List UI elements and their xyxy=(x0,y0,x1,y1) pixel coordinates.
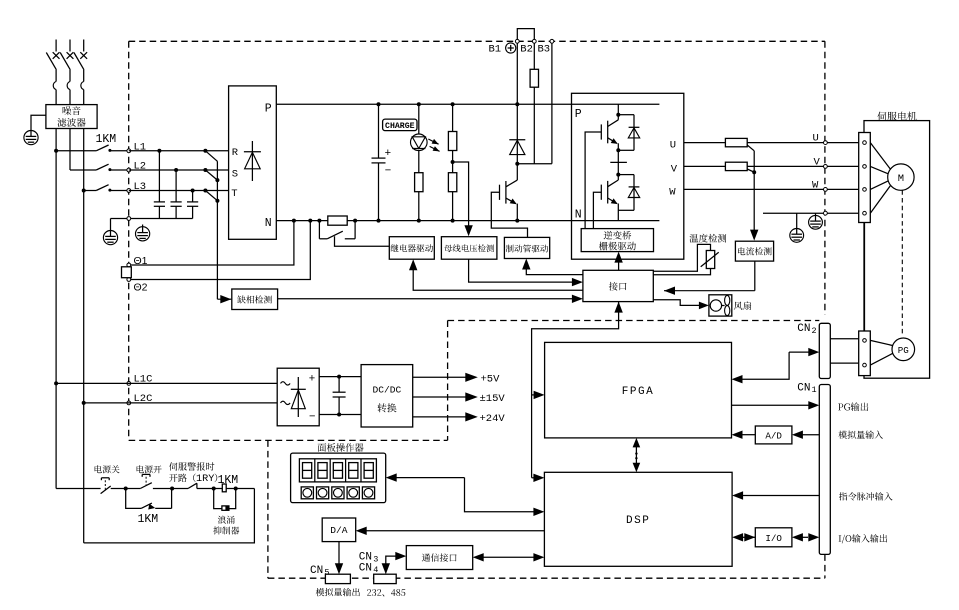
label I/O输入输出 xyxy=(839,534,888,543)
capacitor aux filter xyxy=(337,375,341,379)
wire phase-loss sense (R) xyxy=(205,151,217,162)
svg-text:P: P xyxy=(265,103,272,116)
svg-text:2: 2 xyxy=(812,326,817,336)
label 风扇 xyxy=(734,301,751,310)
contactor 1KM contact (L2 row) xyxy=(70,169,96,171)
svg-text:U: U xyxy=(813,133,819,145)
svg-text:3: 3 xyxy=(373,554,378,564)
svg-text:W: W xyxy=(669,187,676,199)
wire control return loop xyxy=(84,489,255,543)
node N rail junction xyxy=(515,219,519,223)
connector CN1 xyxy=(819,385,830,555)
wire L2C row xyxy=(82,401,86,405)
I/O block xyxy=(755,528,792,547)
DC/DC converter block xyxy=(361,365,413,427)
wire interface to relay drive xyxy=(413,266,583,290)
wire B1 to P rail xyxy=(516,43,518,104)
svg-text:A/D: A/D xyxy=(765,430,782,441)
wire interface to gate drive xyxy=(618,258,620,270)
relay contact 1RY xyxy=(172,488,188,490)
svg-text:P: P xyxy=(575,108,582,121)
servo motor enclosure box xyxy=(864,121,930,379)
wire motor connector to encoder connector xyxy=(864,223,866,332)
brake drive block 制动管驱动 xyxy=(504,237,549,258)
label 模拟量输出 xyxy=(316,588,360,596)
node phase tap (L1) xyxy=(203,149,207,153)
label PG输出 xyxy=(838,402,868,411)
wire A/D to FPGA xyxy=(742,434,755,436)
wire sense to current detect xyxy=(753,151,755,230)
motor shaft coupling (dashed) xyxy=(901,190,903,336)
wire P rail (DC bus +) xyxy=(276,103,659,105)
wire B3 lead xyxy=(551,43,553,164)
node phase tap (L3) xyxy=(203,189,207,193)
wire ±15V output xyxy=(413,396,466,398)
node phase tap (L2) xyxy=(203,168,207,172)
svg-text:1: 1 xyxy=(812,385,817,395)
connector CN2 xyxy=(819,323,830,378)
svg-text:1KM: 1KM xyxy=(138,513,159,526)
svg-text:CHARGE: CHARGE xyxy=(385,122,415,131)
wire CN2 to encoder connector b xyxy=(830,362,858,364)
earth ground symbol (motor PE) xyxy=(762,212,764,214)
coil contactor 1KM xyxy=(214,488,255,490)
bus voltage detect block 母线电压检测 xyxy=(441,237,497,260)
wire motor PE line xyxy=(763,212,859,214)
wire B2 lead xyxy=(533,43,535,69)
connector CN5 xyxy=(325,574,350,583)
svg-text:1KM: 1KM xyxy=(218,474,239,487)
circuit breaker pole 3 xyxy=(83,40,85,52)
terminal U (border) xyxy=(824,141,828,145)
wire L2 row to rectifier xyxy=(129,169,229,171)
wire I/O-CN1 (bidirectional) xyxy=(802,536,808,538)
resistor inrush-limit (on N rail) xyxy=(328,216,347,225)
terminal L3 xyxy=(127,189,131,193)
servo drive unit dashed border (right upper) xyxy=(824,41,826,314)
wire FPGA-DSP bus (bidirectional) xyxy=(635,442,637,469)
wire PG signal b xyxy=(870,353,893,365)
wire U phase output xyxy=(684,142,859,144)
wire interface to brake drive xyxy=(526,265,583,275)
node N rail junction xyxy=(377,219,381,223)
label CHARGE xyxy=(383,119,417,131)
node N rail junction xyxy=(353,219,357,223)
control board dashed border (top) xyxy=(448,320,820,322)
transistor inverter IGBT lower xyxy=(616,173,620,177)
node P rail junction xyxy=(451,102,455,106)
auxiliary rectifier block xyxy=(277,368,319,426)
comm interface block 通信接口 xyxy=(406,546,472,570)
gate drive block 逆变桥栅极驱动 xyxy=(581,229,653,252)
control board dashed border (left) xyxy=(267,440,269,578)
resistor regenerative (internal) xyxy=(530,69,538,87)
wire CN1 to A/D (analog input) xyxy=(802,434,819,436)
diode (aux rectifier symbol) xyxy=(297,377,299,417)
DSP block xyxy=(544,472,732,566)
svg-text:±15V: ±15V xyxy=(480,393,506,405)
label 浪涌抑制器 xyxy=(218,516,235,524)
wire bus voltage detect to interface xyxy=(469,259,573,282)
wire V to motor xyxy=(870,166,888,173)
wire phase B vertical xyxy=(69,129,71,171)
svg-text:CN: CN xyxy=(797,382,810,394)
svg-text:T: T xyxy=(231,188,237,200)
node control junction a xyxy=(124,487,128,491)
wire U to motor xyxy=(870,143,890,169)
wire N rail inside inverter xyxy=(572,220,660,222)
wire N rail (DC bus -) right segment xyxy=(347,220,659,222)
transistor brake IGBT xyxy=(505,181,507,204)
label 面板操作器 xyxy=(318,443,364,452)
earth ground symbol (caps) xyxy=(103,231,117,245)
encoder PG circle xyxy=(892,338,915,361)
interface block 接口 xyxy=(583,270,653,301)
svg-text:FPGA: FPGA xyxy=(622,386,654,398)
wire divider tap to bus-voltage detect xyxy=(453,162,469,226)
svg-text:L1: L1 xyxy=(134,141,147,153)
capacitor line-filter xyxy=(157,149,161,153)
diode (rectifier symbol) xyxy=(251,141,253,181)
svg-text:DC/DC: DC/DC xyxy=(373,385,402,396)
svg-text:Θ2: Θ2 xyxy=(134,282,148,294)
svg-text:+: + xyxy=(309,372,315,384)
wire inverter gate upper to gate drive xyxy=(585,132,601,229)
wire FPGA to CN1 (PG output) xyxy=(732,404,810,406)
node N rail junction xyxy=(417,219,421,223)
wire sense line down to phase-loss detector xyxy=(216,161,218,299)
wire CN2 to FPGA (encoder feedback) xyxy=(789,351,809,353)
terminal PE (border) xyxy=(824,211,828,215)
panel display digits xyxy=(299,459,376,482)
svg-text:+: + xyxy=(385,147,391,159)
svg-text:D/A: D/A xyxy=(330,525,348,536)
polarity mark + xyxy=(506,43,516,53)
wire comm interface to DSP (bidirectional) xyxy=(483,556,534,558)
terminal W (border) xyxy=(824,188,828,192)
terminal Θ1 xyxy=(127,263,131,267)
wire panel operator to DSP xyxy=(396,477,465,479)
wire CN1 to DSP (command pulse input) xyxy=(743,495,820,497)
jumper bar Θ1-Θ2 xyxy=(122,267,132,278)
svg-text:B1: B1 xyxy=(489,43,502,55)
label 模拟量输入 xyxy=(838,431,883,439)
earth ground symbol (drive PE) xyxy=(815,213,817,215)
node divider tap xyxy=(451,160,455,164)
svg-text:N: N xyxy=(265,217,272,230)
wire phase-loss sense (S) xyxy=(205,170,217,180)
temperature sensor label 温度检测 xyxy=(690,234,727,243)
panel operator box xyxy=(291,453,386,503)
servo drive unit dashed border (left) xyxy=(128,41,130,440)
control board dashed border (left vertical step) xyxy=(447,321,449,441)
wire brake node bar xyxy=(517,163,552,165)
wire inverter phase leg output xyxy=(617,150,619,174)
resistor LED series xyxy=(415,173,423,192)
fan block 风扇 xyxy=(709,295,732,316)
wire filter to earth xyxy=(31,115,46,130)
node N rail junction xyxy=(616,219,620,223)
node control junction b xyxy=(170,487,174,491)
node N rail junction xyxy=(317,219,321,223)
svg-text:U: U xyxy=(670,140,676,152)
wire W to motor xyxy=(870,181,888,190)
earth ground symbol (filter) xyxy=(24,131,38,145)
svg-text:M: M xyxy=(898,173,904,185)
wire D/A to CN5 xyxy=(338,542,340,564)
svg-text:R: R xyxy=(232,147,239,159)
servo drive unit dashed border (bottom step) xyxy=(129,439,448,441)
node P rail junction xyxy=(377,102,381,106)
resistor current sensor U xyxy=(725,138,747,146)
terminal B3 xyxy=(550,39,554,43)
servo drive unit dashed border (top) xyxy=(129,40,825,42)
motor power connector xyxy=(859,133,871,223)
contact 1KM self-holding xyxy=(126,489,141,509)
current detect block 电流检测 xyxy=(735,241,773,261)
encoder connector xyxy=(859,331,871,376)
transistor inverter IGBT upper xyxy=(617,104,619,114)
svg-text:B3: B3 xyxy=(538,43,551,55)
wire aux - rail xyxy=(319,414,361,416)
pushbutton power-off 电源关 (NC) xyxy=(95,465,120,473)
wire CN4 to comm interface xyxy=(386,556,396,565)
wire +24V output xyxy=(413,416,466,418)
wire aux + rail xyxy=(319,376,361,378)
circuit breaker pole 2 xyxy=(69,40,71,52)
wire L3 row to rectifier xyxy=(129,190,229,192)
wire PE to motor xyxy=(870,186,890,213)
LED emission arrows xyxy=(428,139,438,144)
wire control bus stub to FPGA xyxy=(532,394,534,396)
terminal L1C xyxy=(127,382,131,386)
terminal Θ2 xyxy=(127,278,131,282)
rectifier bridge block xyxy=(229,86,277,239)
terminal B2 xyxy=(532,39,536,43)
wire L1C row xyxy=(54,381,58,385)
relay drive block 继电器驱动 xyxy=(389,237,434,260)
servo motor label 伺服电机 xyxy=(877,112,916,121)
svg-text:N: N xyxy=(575,209,582,222)
external jumper B1-B2 xyxy=(517,29,534,40)
wire W phase output xyxy=(684,188,859,190)
wire current detect to interface xyxy=(754,261,756,291)
surge suppressor branch xyxy=(214,489,222,509)
svg-text:CN: CN xyxy=(310,565,323,577)
relay contact (inrush bypass) xyxy=(318,221,320,239)
wire DSP-I/O (bidirectional) xyxy=(743,536,756,538)
svg-text:CN: CN xyxy=(797,323,810,335)
wire phase-loss sense (T) xyxy=(205,191,217,201)
resistor divider lower xyxy=(448,173,456,192)
terminal B1 xyxy=(515,39,519,43)
connector CN4 xyxy=(374,574,397,583)
svg-text:S: S xyxy=(232,169,238,181)
thermistor (NTC) xyxy=(706,251,714,269)
node control junction c xyxy=(212,487,216,491)
node control junction d xyxy=(234,487,238,491)
panel buttons xyxy=(301,487,313,499)
node P rail junction xyxy=(616,102,620,106)
phase continuation tick xyxy=(610,161,627,163)
wire inverter gate lower to gate drive xyxy=(593,192,601,228)
svg-text:L3: L3 xyxy=(134,181,147,193)
wire +5V output xyxy=(413,376,466,378)
capacitor DC bus electrolytic xyxy=(378,104,380,158)
svg-text:V: V xyxy=(671,164,678,176)
svg-text:1RY: 1RY xyxy=(196,474,214,485)
motor M circle xyxy=(888,164,914,190)
LED charge indicator xyxy=(418,104,420,134)
wire relay actuator to relay drive xyxy=(335,236,390,246)
fan drive wire xyxy=(653,300,701,306)
wire control feed from phase A xyxy=(56,488,101,490)
wire current sense tap U xyxy=(747,145,754,151)
diode brake freewheel xyxy=(516,104,518,163)
svg-text:−: − xyxy=(385,165,391,177)
wire L1 row to rectifier xyxy=(129,150,229,152)
node P rail junction xyxy=(515,102,519,106)
svg-text:1KM: 1KM xyxy=(96,133,117,146)
terminal L2C xyxy=(127,401,131,405)
label 伺服警报时开路(1RY) xyxy=(169,462,214,471)
A/D block xyxy=(755,426,792,444)
resistor divider upper xyxy=(452,104,454,131)
terminal L2 xyxy=(127,168,131,172)
svg-text:W: W xyxy=(812,180,819,192)
wire P rail inside inverter xyxy=(572,103,660,105)
node N rail junction xyxy=(451,219,455,223)
svg-text:CN: CN xyxy=(359,562,372,574)
wire V phase output xyxy=(684,165,859,167)
wire current sense tap V xyxy=(747,169,754,172)
wire phase C vertical xyxy=(83,129,85,543)
FPGA block xyxy=(545,342,732,438)
svg-text:L2: L2 xyxy=(134,161,147,173)
resistor current sensor V xyxy=(725,162,747,170)
wire N rail (DC bus -) left segment xyxy=(276,220,328,222)
wire Θ1 to N rail xyxy=(131,221,294,265)
pushbutton power-on 电源开 (NO) xyxy=(137,465,162,473)
svg-text:I/O: I/O xyxy=(765,533,782,544)
diode inverter freewheel lower xyxy=(633,175,635,211)
svg-text:+5V: +5V xyxy=(481,373,501,385)
wire Θ2 to N rail xyxy=(131,221,311,280)
terminal V (border) xyxy=(824,165,828,169)
label 232、485 xyxy=(367,589,405,596)
wire CN2 to encoder connector a xyxy=(830,338,858,340)
terminal earth (border crossing) xyxy=(127,217,131,221)
svg-text:4: 4 xyxy=(373,565,378,575)
wire thermistor upper lead to interface xyxy=(653,244,710,271)
contactor 1KM contact (L1 row) xyxy=(54,149,58,153)
svg-text:DSP: DSP xyxy=(626,515,650,527)
node P rail junction xyxy=(417,102,421,106)
servo drive unit dashed border (right lower) xyxy=(824,554,826,578)
inverter module block xyxy=(572,93,684,259)
wire thermistor lower lead to interface xyxy=(653,269,710,275)
svg-text:PG: PG xyxy=(898,345,909,356)
contactor 1KM contact (L3 row) xyxy=(82,189,86,193)
earth ground symbol (chassis) xyxy=(142,225,144,229)
capacitor line-filter xyxy=(191,189,195,193)
circuit breaker pole 1 xyxy=(55,40,57,52)
wire DSP to D/A xyxy=(366,530,544,532)
wire caps common to earth xyxy=(111,218,193,220)
D/A block xyxy=(322,518,356,542)
label 指令脉冲输入 xyxy=(839,492,893,500)
svg-text:+24V: +24V xyxy=(480,413,506,425)
svg-text:−: − xyxy=(309,410,315,422)
control board dashed border (bottom) xyxy=(268,577,825,579)
wire PG signal a xyxy=(870,340,893,345)
noise filter box 噪音滤波器 xyxy=(46,105,97,129)
capacitor line-filter xyxy=(174,168,178,172)
svg-text:B2: B2 xyxy=(520,43,533,55)
wire phase-loss detect to interface xyxy=(278,298,573,300)
wire brake gate to brake drive xyxy=(491,192,527,237)
terminal L1 xyxy=(127,149,131,153)
diode inverter freewheel upper xyxy=(633,115,635,151)
wire interface to DSP/FPGA (control bus) xyxy=(618,302,620,308)
svg-text:V: V xyxy=(814,157,821,169)
wire phase A vertical xyxy=(55,129,57,489)
phase-loss detect block 缺相检测 xyxy=(232,289,278,310)
